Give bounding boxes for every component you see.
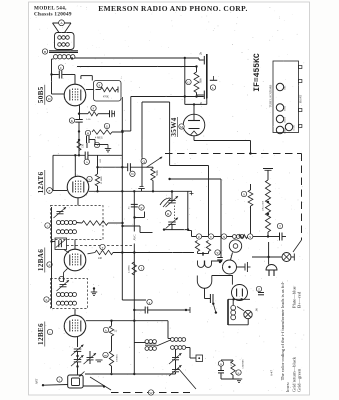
cap to ground	[141, 189, 143, 192]
resistor R16	[109, 326, 113, 336]
AVC label	[132, 232, 137, 244]
wire B+ top	[75, 57, 200, 59]
heater cup	[197, 276, 212, 289]
node B	[42, 49, 47, 54]
svg-text:lows:: lows:	[285, 382, 290, 392]
chart tab	[299, 109, 302, 112]
volume control R6	[147, 166, 154, 168]
wire	[52, 241, 56, 243]
svg-text:470K: 470K	[103, 96, 109, 99]
trimmer capacitor CT1	[168, 200, 176, 202]
node d	[47, 262, 52, 267]
choke L1	[233, 235, 237, 239]
node h	[44, 297, 49, 302]
wire B- drop	[142, 101, 170, 103]
pilot lamp PL1	[229, 240, 241, 252]
wire to osc coil	[167, 321, 169, 339]
resistor R9	[239, 235, 248, 239]
wire	[187, 192, 189, 230]
chart tab	[299, 80, 302, 83]
wire IF2 to 12BA6	[74, 240, 76, 250]
node j	[57, 377, 62, 382]
heater series resistor R8	[263, 168, 273, 170]
svg-text:10MEG: 10MEG	[116, 354, 119, 362]
wire	[135, 217, 145, 219]
node T	[277, 223, 282, 228]
ground pad	[96, 359, 103, 361]
wire plate	[86, 89, 94, 91]
padder capacitor	[87, 357, 94, 359]
svg-text:12BE6: 12BE6	[37, 323, 45, 345]
wire left rail	[51, 59, 53, 94]
socket	[223, 260, 237, 274]
node i	[47, 329, 52, 334]
chassis cap	[213, 76, 215, 80]
resistor R11	[206, 241, 210, 252]
svg-text:F: F	[93, 106, 95, 110]
svg-text:12AT6: 12AT6	[37, 172, 45, 194]
svg-text:50B5: 50B5	[37, 86, 45, 103]
svg-text:35W4: 35W4	[285, 106, 287, 111]
capacitor C11	[204, 288, 206, 299]
wire grid diagonal	[64, 250, 69, 253]
svg-text:4 MEG: 4 MEG	[95, 137, 103, 140]
svg-text:E: E	[98, 83, 100, 87]
wire AVC rail	[133, 191, 135, 374]
svg-text:The color coding of the i-f tr: The color coding of the i-f transformer …	[280, 281, 285, 380]
svg-text:p: p	[238, 371, 240, 375]
resistor R2	[79, 113, 88, 115]
output transformer T3	[55, 33, 75, 50]
filament choke core bar	[227, 299, 229, 325]
wire rectifier cathode drop	[198, 58, 200, 60]
node G2	[186, 79, 191, 84]
capacitor C8	[131, 203, 138, 205]
capacitor C3	[86, 143, 88, 148]
svg-text:5065 2580: 5065 2580	[262, 200, 265, 211]
wire IF1 to 12BE6	[74, 309, 76, 316]
tube V2 12BA6	[64, 249, 86, 271]
switch SW1	[213, 304, 216, 313]
trimmer	[60, 284, 67, 286]
wire	[170, 165, 209, 167]
tube V3 12AT6	[67, 176, 89, 198]
node J	[94, 142, 99, 147]
winding	[57, 221, 61, 225]
wire	[169, 102, 171, 166]
svg-text:d: d	[49, 263, 51, 267]
node G	[104, 123, 109, 128]
svg-text:500K: 500K	[156, 170, 159, 176]
svg-text:i: i	[50, 330, 51, 334]
node p	[236, 370, 241, 375]
transformer core	[49, 50, 78, 52]
IF transformer T1 (dashed)	[51, 279, 88, 309]
resistor R10	[195, 241, 199, 252]
svg-text:12BA6: 12BA6	[37, 249, 45, 271]
svg-text:Chassis 120049: Chassis 120049	[34, 12, 72, 18]
svg-text:AVC: AVC	[132, 235, 136, 241]
wire	[134, 342, 145, 344]
capacitor C5 (2b)	[203, 56, 205, 64]
wire	[228, 298, 250, 300]
pot wiper arc	[160, 198, 170, 205]
svg-text:L: L	[212, 86, 214, 90]
node U	[196, 234, 201, 239]
svg-text:17770: 17770	[230, 359, 233, 366]
chart tab	[299, 125, 302, 128]
wire screen bus	[121, 97, 123, 300]
svg-text:h: h	[46, 298, 48, 302]
svg-text:1: 1	[69, 180, 70, 182]
wire loop to gang	[83, 385, 104, 387]
capacitor C4	[75, 119, 83, 121]
ganged dashes	[174, 206, 176, 220]
wire	[247, 319, 249, 325]
node A (speaker)	[59, 20, 65, 26]
node W	[148, 390, 153, 395]
primary winding	[53, 55, 57, 59]
wire	[170, 178, 221, 180]
wire	[208, 166, 210, 237]
gang diagonal	[178, 368, 196, 389]
capacitor C15	[218, 370, 224, 372]
tube location 35W4	[276, 104, 283, 111]
svg-text:2b: 2b	[199, 52, 203, 56]
winding	[57, 293, 61, 297]
pilot lamp PL3	[282, 253, 291, 262]
wire	[220, 179, 222, 257]
feedback box	[94, 81, 122, 102]
svg-text:1000: 1000	[200, 78, 203, 84]
filament choke winding	[231, 305, 236, 310]
node F	[91, 106, 96, 111]
tube locations chart	[273, 61, 299, 133]
tube location 12BA6	[276, 115, 283, 122]
resistor R7	[250, 184, 252, 190]
chart tab	[299, 66, 302, 69]
resistor R18	[231, 361, 235, 375]
node F2	[47, 188, 53, 194]
svg-text:F: F	[49, 189, 51, 193]
svg-text:IF=455KC: IF=455KC	[253, 53, 262, 92]
svg-text:35W4: 35W4	[170, 117, 178, 136]
oscillator coil L2	[145, 340, 149, 344]
svg-text:g: g	[149, 300, 151, 304]
resistor R5 (filter)	[196, 67, 198, 73]
capacitor C1 (output coupling)	[52, 74, 59, 76]
wire	[85, 373, 170, 375]
svg-text:50B5: 50B5	[285, 86, 287, 90]
winding	[57, 301, 61, 305]
node c	[45, 223, 50, 228]
wire B+ bus horizontal	[131, 96, 204, 98]
trimmer capacitor CT2	[168, 221, 176, 223]
wire	[252, 256, 282, 258]
capacitor C2	[86, 136, 88, 143]
node E	[97, 82, 102, 87]
wire	[86, 320, 168, 322]
wire rectifier output	[184, 58, 186, 104]
gang arrow into loop	[79, 372, 85, 377]
winding	[57, 230, 61, 234]
wire bus stub	[130, 97, 132, 132]
svg-text:B+—red: B+—red	[297, 291, 302, 308]
node n	[218, 361, 223, 366]
svg-text:b: b	[89, 177, 91, 181]
wire	[232, 299, 234, 305]
node Y	[215, 250, 220, 255]
svg-text:M: M	[180, 125, 183, 129]
tube V5 35W4	[183, 114, 205, 136]
wire B+ second	[77, 66, 197, 68]
svg-text:S: S	[249, 235, 251, 239]
AVC dashed feed	[67, 245, 134, 247]
svg-text:6-47: 6-47	[270, 370, 274, 376]
node C	[58, 65, 63, 70]
speaker	[53, 23, 72, 33]
svg-text:3.3MEG: 3.3MEG	[128, 265, 131, 274]
wire	[53, 154, 85, 156]
heater cups	[198, 261, 205, 268]
resistor R17	[109, 351, 113, 366]
svg-text:EMERSON RADIO AND PHONO. CORP.: EMERSON RADIO AND PHONO. CORP.	[98, 4, 248, 13]
wire volume feed	[98, 166, 128, 168]
capacitor C13 (series in audio line)	[84, 152, 86, 160]
wire	[123, 225, 141, 227]
wire heater row	[192, 236, 233, 238]
trimmer	[57, 211, 64, 213]
svg-text:Z: Z	[258, 287, 260, 291]
svg-text:Grid—green: Grid—green	[297, 368, 302, 392]
svg-text:FRONT: FRONT	[300, 94, 303, 103]
svg-text:ANT: ANT	[35, 378, 38, 384]
wire	[89, 190, 192, 192]
resistor R14	[88, 253, 96, 254]
svg-text:m: m	[104, 353, 107, 357]
svg-text:TUBE LOCATIONS: TUBE LOCATIONS	[269, 84, 272, 107]
tuning capacitor (ant)	[77, 337, 79, 347]
resistor R1	[101, 87, 117, 91]
osc trimmers	[172, 357, 179, 359]
tube location 12AT6	[285, 123, 292, 130]
svg-text:k: k	[105, 328, 107, 332]
node S2	[248, 234, 253, 239]
wire grid	[53, 190, 67, 192]
wire 12AT6 to IF2	[77, 198, 79, 206]
tube location 12BE6	[276, 126, 283, 133]
tube location 50B5	[276, 83, 283, 90]
dashed link bottom	[111, 392, 190, 394]
electrolytic common bar	[206, 54, 208, 98]
pilot lamp PL2	[244, 310, 252, 318]
svg-text:12AT6: 12AT6	[293, 125, 296, 130]
slug box	[196, 355, 203, 362]
svg-text:CHASSIS: CHASSIS	[242, 359, 245, 369]
wire 35W4 heater out	[193, 136, 195, 141]
tuning capacitor 2	[74, 359, 82, 361]
polarity cross	[190, 193, 194, 195]
wire loop	[212, 276, 233, 285]
svg-text:j: j	[58, 378, 60, 382]
node V	[208, 234, 213, 239]
resistor R15	[132, 262, 136, 275]
node M	[179, 124, 184, 129]
node D	[46, 96, 52, 102]
resistor R12	[97, 155, 99, 174]
capacitor C7 (coupling)	[127, 163, 129, 171]
loop antenna	[68, 375, 83, 388]
capacitor C14	[147, 299, 152, 304]
IF transformer T2 (dashed)	[51, 206, 104, 240]
wire	[122, 299, 146, 301]
svg-text:P: P	[141, 206, 143, 210]
tube V1 12BE6	[64, 315, 86, 337]
trimmer box	[55, 238, 67, 250]
wire 12AT6 plate stub	[74, 155, 76, 176]
node X	[221, 234, 226, 239]
svg-text:n: n	[220, 362, 222, 366]
wire 12BA6 cathode to IF1	[64, 269, 68, 273]
capacitor C6 (7b)	[203, 91, 205, 100]
capacitor C12	[256, 286, 261, 291]
svg-text:12BA6: 12BA6	[284, 117, 287, 123]
wire cathode	[79, 105, 81, 119]
line plug	[232, 285, 248, 301]
AC plug	[266, 265, 277, 271]
ground	[93, 289, 95, 293]
svg-text:15 MEG: 15 MEG	[100, 176, 103, 185]
dial gang dashed link	[165, 153, 302, 155]
resistor R13	[82, 221, 108, 226]
tube V4 50B5	[64, 84, 86, 106]
resistor R3	[92, 130, 112, 134]
wire	[164, 229, 188, 231]
capacitor C10	[217, 257, 223, 259]
wire	[237, 307, 244, 311]
wire left rail lower	[51, 207, 53, 308]
svg-text:S: S	[243, 192, 245, 196]
ground	[221, 378, 239, 380]
wire primary to B+ line	[74, 57, 76, 59]
capacitor C9	[268, 236, 279, 238]
ground (tone)	[107, 145, 109, 149]
resistor R4 (cathode)	[77, 141, 81, 151]
oscillator coil L3	[171, 338, 175, 342]
